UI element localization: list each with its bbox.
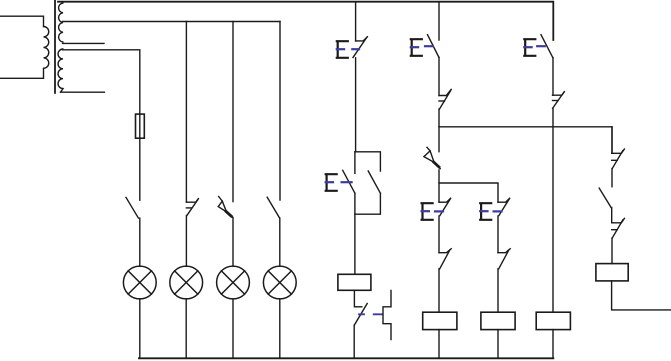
pushbutton S10 actuator dash [494,210,502,212]
pushbutton S6 label E [326,174,337,191]
pushbutton S7 actuator dash [425,45,433,47]
wire stub lower secondary bottom terminal [60,91,104,93]
wire S2 to lamp H2 [185,216,187,267]
wire top bus L1 [58,2,553,40]
switch S8 cam-operated [424,147,440,168]
wire S8 to node B [438,170,440,202]
pushbutton S10 label E [480,203,491,220]
wire node to cam switch [438,127,440,152]
wire S5 to latch loop [355,58,357,152]
switch S12 [599,188,611,207]
wire node B rail to branch 7 [439,183,498,202]
contact K4a [553,92,565,109]
wire K1 to thermal contact [353,290,355,307]
transformer T1 secondary winding upper [59,3,63,42]
contact K5a [612,149,625,169]
wire K2b to coil K2 [438,269,440,312]
wire right branch contact chain [611,127,613,154]
lamp H1 [123,266,156,299]
wire K3 to bottom bus [497,330,499,359]
coil K3 [481,312,515,329]
pushbutton S9 contact [439,198,451,215]
lamp H2 [170,266,203,299]
wire S12 to contact K5b [611,208,613,223]
wire lamp branch 2 drop [185,22,187,203]
wire H4 to bottom bus [279,299,281,358]
pushbutton S7 contact [428,35,440,58]
coil K2 [423,312,457,329]
switch S4 [267,197,279,218]
wire H2 to bottom bus [185,299,187,358]
wire K2a to node junction [438,109,440,127]
wire lower secondary top terminal to fuse branch [63,50,140,114]
pushbutton S11 contact [541,35,553,58]
transformer T1 primary winding [0,16,49,78]
wire S10 to contact K3b [497,216,499,253]
pushbutton S6 actuator dash [342,181,352,183]
coil K5 [596,264,628,281]
wire thermal contact to bottom bus [353,325,355,358]
wire K5 to right edge [612,281,671,310]
wire branch 6 drop from bus [438,2,440,40]
pushbutton S6 latch loop frame [355,152,381,214]
pushbutton S11 actuator dash [537,45,545,47]
transformer T1 secondary winding lower [58,49,63,92]
thermal overload F2 actuator dashes [359,313,382,315]
wire K4 to bottom bus corner [552,330,554,359]
wire H3 to bottom bus [232,299,234,358]
pushbutton S5 label E [337,41,348,58]
wire stub upper secondary lower terminal [63,42,105,44]
wire loop left upper leg [354,152,356,174]
wire K2 to bottom bus [438,330,440,359]
wire fuse to switch S1 [139,138,141,200]
wire S7 to contact K2a [438,58,440,96]
wire branch 5 drop from bus [355,2,357,41]
thermal overload F2 element [383,291,391,340]
contact K3b [498,249,510,269]
contact K2a [439,89,451,109]
lamp H3 [217,266,250,299]
wire H1 to bottom bus [139,299,141,358]
pushbutton S5 contact [353,37,367,58]
wire interlock rail [439,127,612,154]
wire loop to coil K1 [354,193,356,274]
switch S2 [186,199,198,216]
wire bottom bus N [139,357,553,359]
coil K4 [536,312,570,329]
pushbutton S11 label E [524,39,535,56]
pushbutton S9 label E [422,203,433,220]
pushbutton S6 contact left [343,170,355,193]
contact K5b [612,218,625,238]
wire S1 to lamp H1 [139,218,141,266]
thermal overload contact F2 [354,304,367,326]
wire lamp branch 3 drop [232,22,234,202]
wire S3 to lamp H3 [232,218,234,267]
pushbutton S5 actuator dash [352,48,359,50]
contact K2b [439,249,451,269]
wire lamp branch 4 drop [279,22,281,201]
wire K4a down to coil K4 [552,108,554,312]
pushbutton S7 label E [411,39,422,56]
pushbutton S6 contact right [368,171,380,193]
fuse F1 [136,114,145,138]
wire S4 to lamp H4 [279,218,281,266]
switch S1 [126,197,138,218]
wire K5a to switch S12 [611,169,613,187]
wire S9 to contact K2b [438,216,440,253]
coil K1 [338,274,371,290]
switch S3 cam-operated [218,197,233,218]
transformer T1 core [54,0,56,93]
wire K5b to coil K5 [611,238,613,264]
wire S11 to contact K4a [552,58,554,96]
pushbutton S9 actuator dash [435,210,443,212]
wire K3b to coil K3 [497,269,499,312]
wire secondary tap to lamp branches [63,21,281,23]
pushbutton S10 contact [498,198,510,215]
lamp H4 [263,266,296,299]
